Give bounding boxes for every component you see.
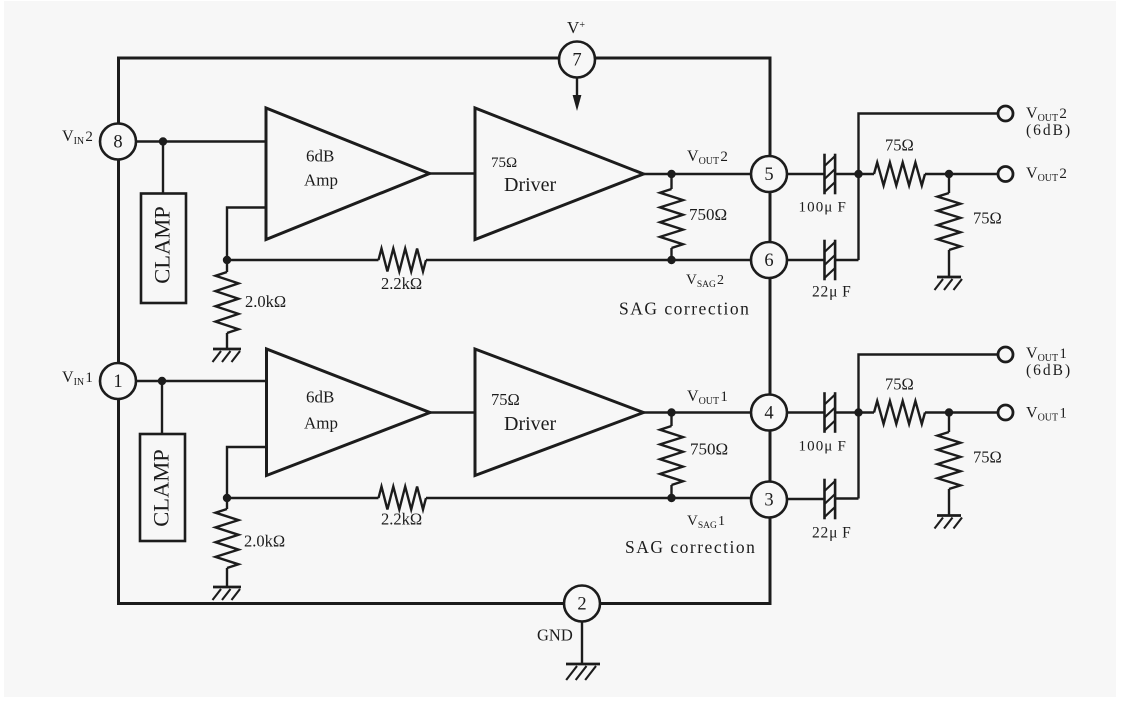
node junction after 100uF ch1 <box>854 408 862 416</box>
ground below 2.0k (channel 2) <box>213 348 241 351</box>
node junction VSAG1 <box>667 494 675 502</box>
resistor R: 75 ohm series (channel 2) <box>874 163 925 186</box>
svg-text:3: 3 <box>764 490 773 510</box>
pin 6 <box>751 242 787 278</box>
op-amp A2: 6dB Amp (channel 2) <box>266 108 430 240</box>
svg-text:5: 5 <box>764 165 773 185</box>
wire 75ohm to VOUT2 terminal <box>925 173 998 175</box>
svg-text:75Ω: 75Ω <box>491 155 517 171</box>
svg-text:75Ω: 75Ω <box>973 209 1002 228</box>
wire driver2 out to pin 5 <box>644 173 752 175</box>
node junction driver2 output <box>667 170 675 178</box>
svg-text:2.0kΩ: 2.0kΩ <box>244 532 285 551</box>
node junction feedback 1 <box>223 494 231 502</box>
terminal VOUT1 (6dB) <box>998 347 1013 362</box>
wire amp1 out to driver1 <box>430 411 475 413</box>
svg-text:Driver: Driver <box>504 174 557 196</box>
CLAMP block (channel 1) <box>140 434 185 541</box>
terminal VOUT1 <box>998 405 1013 420</box>
svg-text:2.2kΩ: 2.2kΩ <box>381 510 422 529</box>
capacitor C: 22uF (channel 1) <box>823 479 826 520</box>
node junction driver1 output <box>667 408 675 416</box>
wire amp2 feedback stub <box>227 208 266 261</box>
svg-text:75Ω: 75Ω <box>885 375 914 394</box>
terminal VOUT2 <box>998 167 1013 182</box>
capacitor C: 100uF (channel 2) <box>823 154 826 195</box>
wire 75ohm to VOUT1 terminal <box>925 411 998 413</box>
svg-text:GND: GND <box>537 626 573 645</box>
wire feedback2 to 2.2k <box>227 259 379 261</box>
svg-text:750Ω: 750Ω <box>689 205 727 224</box>
wire pin6 to 22uF cap <box>787 259 824 261</box>
IC block outline U1 (pins drawn on the rectangle) <box>119 58 771 604</box>
pin 1 <box>100 363 136 399</box>
wire pin4 to 100uF cap <box>787 411 824 413</box>
wire pin5 to 100uF cap <box>787 173 824 175</box>
resistor R: 2.2k ohm (channel 2) <box>379 249 427 272</box>
svg-text:100μ F: 100μ F <box>799 439 848 455</box>
CLAMP block (channel 2) <box>141 194 186 304</box>
svg-text:CLAMP: CLAMP <box>149 449 174 527</box>
ground below pin 2 <box>566 663 600 666</box>
wire cap to junction <box>835 173 874 175</box>
svg-text:2.0kΩ: 2.0kΩ <box>245 292 286 311</box>
node junction after 100uF <box>854 170 862 178</box>
wire junction to CLAMP1 <box>161 381 163 434</box>
wire pin1 to amp input <box>136 380 267 382</box>
node junction at VOUT1 divider <box>945 408 953 416</box>
svg-text:1: 1 <box>113 372 122 392</box>
wire junction to CLAMP2 <box>162 142 164 194</box>
V+ arrow into IC <box>576 78 578 97</box>
pin 3 <box>751 482 787 518</box>
svg-text:6dB: 6dB <box>306 147 334 166</box>
resistor R: 750 ohm (channel 1) <box>670 413 672 427</box>
wire 22uF to vertical junction line ch1 <box>835 497 858 499</box>
svg-text:75Ω: 75Ω <box>491 390 520 409</box>
svg-text:8: 8 <box>113 132 122 152</box>
op-amp A1b: 75-ohm Driver (channel 1) <box>475 349 644 476</box>
wire amp1 feedback stub <box>227 447 267 498</box>
resistor R: 75 ohm shunt (channel 1) <box>948 413 950 433</box>
resistor R: 2.0k ohm (channel 1) <box>226 498 228 509</box>
ground below 2.0k (channel 1) <box>213 586 241 589</box>
wire 2.2k to pin 3 (VSAG1 line) <box>426 497 751 499</box>
svg-text:Amp: Amp <box>304 414 338 433</box>
svg-text:75Ω: 75Ω <box>973 448 1002 467</box>
wire pin3 to 22uF cap <box>787 498 824 500</box>
resistor R: 750 ohm (channel 2) <box>670 174 672 189</box>
wire junction up and to 6dB terminal ch1 <box>859 355 999 499</box>
svg-text:Driver: Driver <box>504 413 557 435</box>
svg-text:Amp: Amp <box>304 171 338 190</box>
wire pin8 to amp input <box>136 140 266 142</box>
svg-text:SAG correction: SAG correction <box>619 299 750 319</box>
node junction at VOUT2 divider <box>945 170 953 178</box>
capacitor C: 100uF (channel 1) <box>823 392 826 433</box>
wire pin2 to ground <box>581 622 583 665</box>
wire feedback1 to 2.2k <box>227 497 379 499</box>
wire driver1 out to pin 4 <box>644 411 752 413</box>
node junction feedback 2 <box>223 256 231 264</box>
node junction at VIN2 <box>159 137 167 145</box>
svg-text:75Ω: 75Ω <box>885 136 914 155</box>
svg-text:4: 4 <box>764 403 773 423</box>
node junction VSAG2 <box>667 256 675 264</box>
svg-text:22μ F: 22μ F <box>812 284 852 301</box>
wire 22uF to vertical junction line <box>835 259 858 261</box>
svg-text:2: 2 <box>577 594 586 614</box>
op-amp A2b: 75-ohm Driver (channel 2) <box>475 108 644 240</box>
wire junction up and to 6dB terminal <box>859 114 999 261</box>
svg-text:7: 7 <box>572 50 581 70</box>
svg-text:750Ω: 750Ω <box>690 440 728 459</box>
op-amp A1: 6dB Amp (channel 1) <box>267 349 431 476</box>
resistor R: 75 ohm series (channel 1) <box>874 401 925 424</box>
svg-text:100μ F: 100μ F <box>799 200 848 216</box>
wire cap to junction <box>835 411 874 413</box>
terminal VOUT2 (6dB) <box>998 106 1013 121</box>
wire 2.2k to pin 6 (VSAG2 line) <box>426 259 751 261</box>
svg-text:6: 6 <box>764 251 773 271</box>
pin 5 <box>751 156 787 192</box>
pin 8 <box>100 124 136 160</box>
node junction at VIN1 <box>158 377 166 385</box>
capacitor C: 22uF (channel 2) <box>823 240 826 281</box>
resistor R: 2.2k ohm (channel 1) <box>379 487 427 510</box>
ground below 75 ohm (channel 1) <box>937 514 961 517</box>
ground below 75 ohm (channel 2) <box>937 276 961 279</box>
resistor R: 2.0k ohm (channel 2) <box>226 260 228 272</box>
svg-text:(6dB): (6dB) <box>1026 122 1072 139</box>
pin 7 <box>559 42 595 78</box>
svg-text:CLAMP: CLAMP <box>150 206 175 284</box>
svg-text:SAG correction: SAG correction <box>625 537 756 557</box>
pin 2 <box>564 586 600 622</box>
wire amp2 out to driver2 <box>430 172 476 174</box>
pin 4 <box>751 395 787 431</box>
resistor R: 75 ohm shunt (channel 2) <box>948 174 950 193</box>
svg-text:2.2kΩ: 2.2kΩ <box>381 274 422 293</box>
svg-text:6dB: 6dB <box>306 388 334 407</box>
svg-text:22μ F: 22μ F <box>812 525 852 542</box>
svg-text:(6dB): (6dB) <box>1026 362 1072 379</box>
